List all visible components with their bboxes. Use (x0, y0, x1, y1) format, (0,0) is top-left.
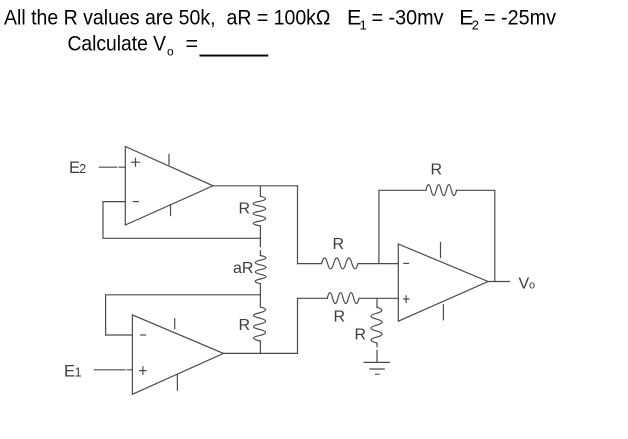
wire U3 feedback left leg (379, 190, 426, 263)
op-amp U2 minus input symbol (141, 334, 146, 336)
source label E2 (69, 159, 86, 177)
svg-text:aR: aR (233, 260, 253, 277)
op-amp U2 (bottom-left, E1 buffer) triangle (132, 315, 223, 394)
op-amp U3 positive supply tick (440, 243, 442, 258)
op-amp U1 plus input symbol (132, 158, 140, 166)
wire U1 output to top node (213, 185, 298, 187)
svg-text:1: 1 (360, 18, 367, 33)
wire U3 output to Vo (488, 281, 510, 283)
blank underline (200, 55, 269, 57)
resistor R3 (chain bottom, R) (254, 295, 266, 354)
wire top node down to R4 input (297, 186, 299, 264)
wire E1 input to U2 + (94, 369, 132, 371)
svg-text:R: R (333, 236, 345, 253)
svg-text:= -25mv: = -25mv (484, 6, 556, 30)
op-amp U3 plus input symbol (404, 296, 409, 303)
svg-text:Calculate V: Calculate V (68, 32, 167, 56)
svg-text:= -30mv: = -30mv (372, 6, 444, 30)
source label E1 (64, 363, 82, 381)
svg-text:R: R (355, 327, 367, 344)
resistor R2 (aR) (255, 238, 266, 294)
svg-text:o: o (167, 45, 174, 59)
node label Vo (519, 276, 536, 293)
op-amp U1 positive supply tick (168, 154, 170, 164)
svg-text:All the R values are 50k,: All the R values are 50k, (4, 6, 216, 30)
wire bottom node up to R5 input (297, 298, 299, 353)
op-amp U3 negative supply tick (442, 305, 444, 320)
op-amp U1 negative supply tick (170, 205, 172, 216)
resistor R6 (to ground) (371, 298, 382, 362)
wire E2 input to U1 + (99, 166, 125, 168)
resistor R4 value label R (333, 236, 345, 253)
resistor R1 value label R (239, 201, 251, 218)
resistor R5 value label R (334, 309, 346, 326)
svg-text:1: 1 (75, 366, 82, 380)
svg-text:R: R (431, 161, 443, 178)
op-amp U1 (top-left, E2 buffer) triangle (125, 147, 213, 226)
resistor R3 value label R (239, 317, 251, 334)
wire U1 feedback (minus input to node A) (103, 202, 260, 239)
resistor R1 (chain top, R) (253, 186, 265, 239)
wire U2 feedback (minus input to node B) (106, 295, 133, 335)
svg-text:2: 2 (79, 162, 86, 176)
wire U3 feedback right leg to output (457, 190, 495, 281)
svg-text:=: = (186, 32, 199, 56)
op-amp U3 minus input symbol (404, 262, 409, 264)
resistor R7 value label R (431, 161, 443, 178)
op-amp U3 (output difference amp) triangle (398, 244, 488, 321)
resistor R7 (feedback R) (426, 185, 457, 196)
svg-text:R: R (239, 317, 251, 334)
svg-text:E: E (64, 363, 75, 381)
wire U2 output to bottom node (224, 352, 298, 354)
op-amp U2 plus input symbol (140, 367, 146, 374)
op-amp U2 negative supply tick (176, 375, 178, 390)
svg-text:R: R (334, 309, 346, 326)
resistor R5 (lower input R to U3 plus) (298, 293, 399, 304)
resistor R4 (upper input R to U3 minus) (298, 258, 399, 269)
svg-text:R: R (239, 201, 251, 218)
ground symbol (364, 362, 389, 374)
op-amp U1 minus input symbol (133, 201, 138, 203)
op-amp U2 positive supply tick (174, 319, 176, 329)
resistor R6 value label R (355, 327, 367, 344)
wire node B to aR/R3 junction (106, 294, 261, 296)
svg-text:2: 2 (472, 18, 479, 33)
svg-text:V: V (519, 276, 530, 293)
resistor R2 value label aR (233, 260, 253, 277)
svg-text:aR = 100kΩ: aR = 100kΩ (227, 6, 331, 30)
svg-text:o: o (529, 280, 535, 292)
